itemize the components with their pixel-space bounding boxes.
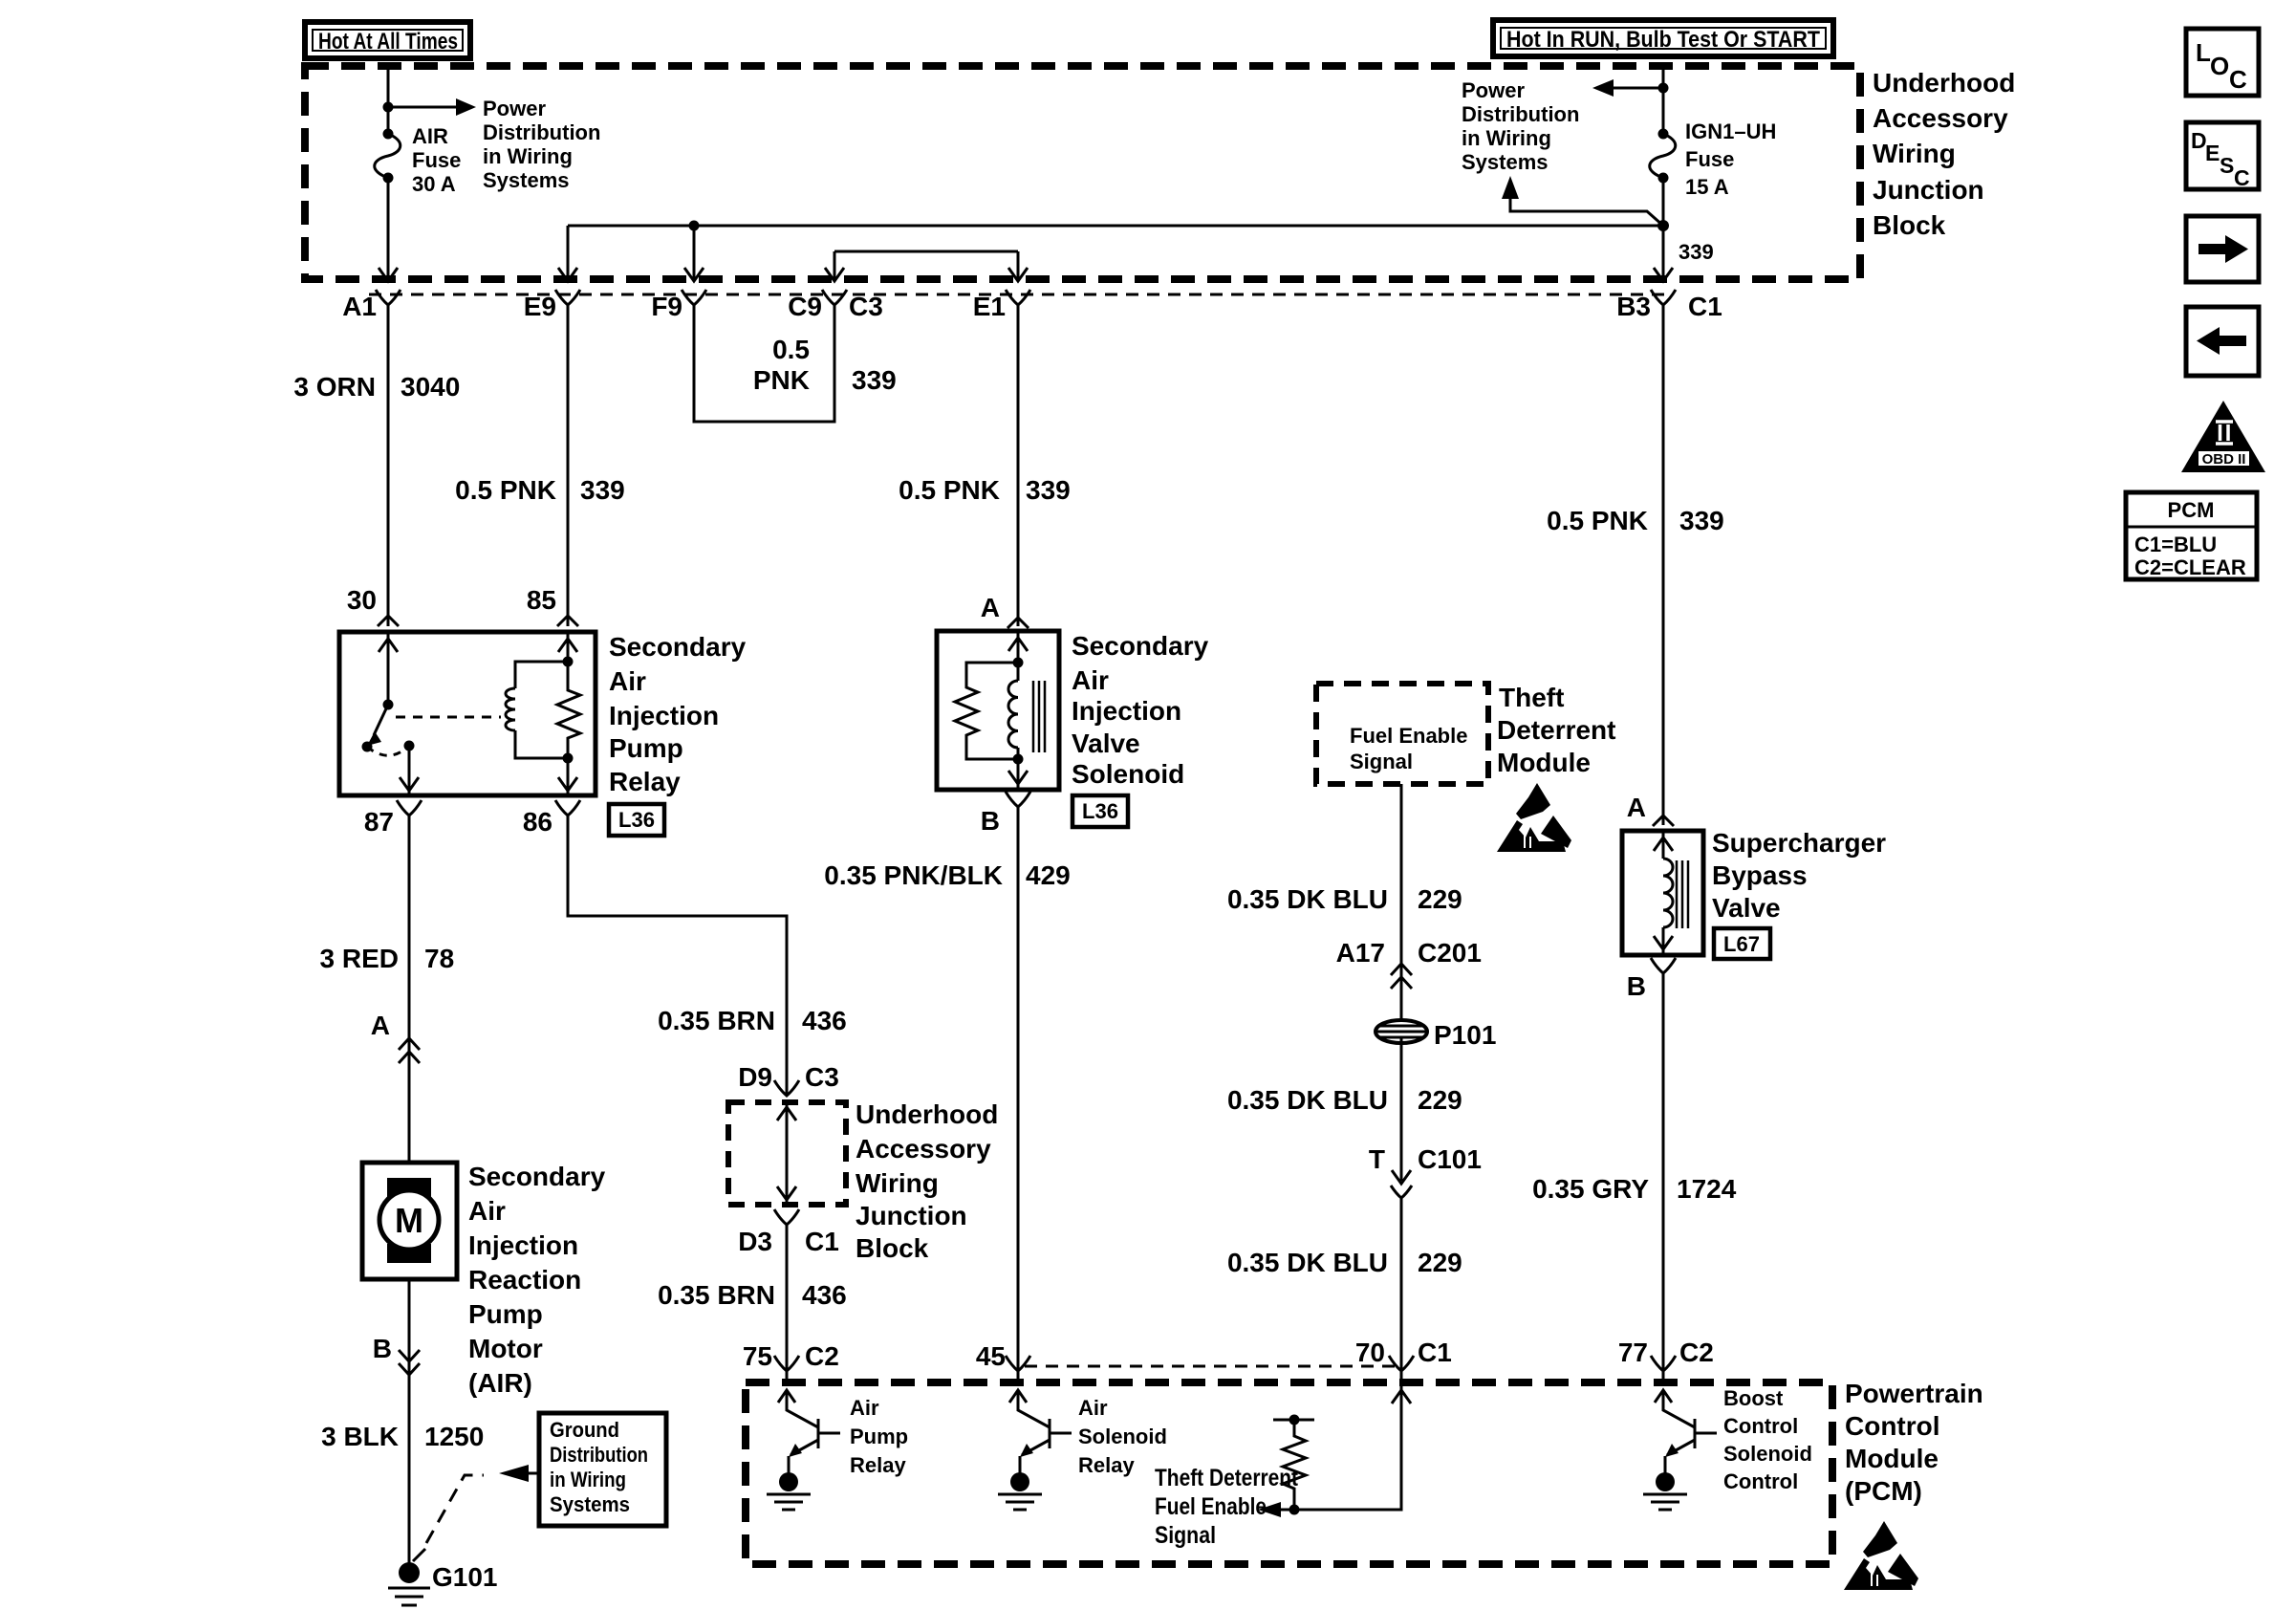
svg-text:Secondary: Secondary bbox=[468, 1162, 606, 1191]
svg-text:G101: G101 bbox=[432, 1562, 498, 1592]
svg-text:Module: Module bbox=[1497, 748, 1591, 777]
svg-text:436: 436 bbox=[802, 1006, 847, 1035]
transistor: air solenoid relay driver bbox=[998, 1390, 1072, 1510]
svg-text:L67: L67 bbox=[1723, 932, 1760, 956]
svg-text:Distribution: Distribution bbox=[550, 1443, 648, 1467]
svg-text:C3: C3 bbox=[805, 1062, 839, 1092]
svg-text:PCM: PCM bbox=[2168, 498, 2215, 522]
svg-text:Solenoid: Solenoid bbox=[1072, 759, 1184, 789]
wire: solenoid A internal with up arrow bbox=[1008, 631, 1028, 663]
wire: through small junction block with arrows bbox=[777, 1105, 796, 1202]
small junction block pass-through (dashed box) bbox=[728, 1102, 846, 1205]
svg-text:Air: Air bbox=[1078, 1396, 1108, 1420]
svg-text:Hot At All Times: Hot At All Times bbox=[318, 29, 458, 54]
wire: relay 85 internal with up arrow bbox=[558, 632, 577, 662]
label: Air Solenoid Relay bbox=[1078, 1396, 1167, 1477]
svg-text:in Wiring: in Wiring bbox=[483, 144, 573, 168]
internal signal arrow (fuel enable) bbox=[1258, 1502, 1294, 1517]
svg-text:A17: A17 bbox=[1336, 938, 1385, 968]
svg-text:Pump: Pump bbox=[850, 1425, 908, 1448]
wire: relay 30 internal with up arrow bbox=[379, 632, 398, 705]
svg-text:Deterrent: Deterrent bbox=[1497, 715, 1615, 745]
relay resistor (parallel) bbox=[557, 657, 580, 764]
svg-text:70: 70 bbox=[1355, 1338, 1385, 1367]
supercharger valve core bars bbox=[1677, 860, 1688, 928]
sidebar icon: arrow right box bbox=[2186, 216, 2259, 282]
svg-text:C9: C9 bbox=[788, 292, 822, 321]
svg-text:Relay: Relay bbox=[850, 1453, 906, 1477]
pin 77 / C2 bbox=[1618, 1338, 1714, 1371]
svg-text:Junction: Junction bbox=[856, 1201, 967, 1230]
transistor: air pump relay driver bbox=[767, 1390, 840, 1510]
wire: F9 drop to border with arrow bbox=[684, 226, 704, 281]
solenoid resistor (left branch) bbox=[955, 658, 1024, 765]
svg-text:Fuel Enable: Fuel Enable bbox=[1350, 724, 1467, 748]
connector A (in-line, double chevron) bbox=[371, 1011, 420, 1063]
svg-text:0.35 GRY: 0.35 GRY bbox=[1532, 1174, 1649, 1204]
svg-text:F9: F9 bbox=[651, 292, 682, 321]
wire: E1 drop to border with arrow bbox=[1008, 251, 1028, 281]
svg-text:C: C bbox=[2234, 165, 2250, 190]
svg-text:C101: C101 bbox=[1418, 1144, 1482, 1174]
pin 87 bbox=[364, 800, 422, 837]
svg-text:229: 229 bbox=[1418, 1248, 1462, 1277]
svg-text:(AIR): (AIR) bbox=[468, 1368, 532, 1398]
label: Supercharger Bypass Valve bbox=[1712, 828, 1886, 923]
svg-text:Theft Deterrent: Theft Deterrent bbox=[1155, 1465, 1299, 1491]
label: Air Pump Relay bbox=[850, 1396, 908, 1477]
sidebar icon: LOC box bbox=[2186, 29, 2259, 96]
connector A1 bbox=[342, 290, 401, 321]
label: 0.5 PNK 339 (E1 drop) bbox=[899, 475, 1071, 505]
wire: IGN1 feed down from Hot In RUN bbox=[1662, 66, 1665, 134]
svg-text:86: 86 bbox=[523, 807, 552, 837]
svg-text:T: T bbox=[1369, 1144, 1385, 1174]
svg-text:L: L bbox=[2196, 38, 2211, 67]
svg-text:Fuse: Fuse bbox=[1685, 147, 1734, 171]
svg-text:Hot In RUN, Bulb Test Or START: Hot In RUN, Bulb Test Or START bbox=[1506, 27, 1820, 53]
wire: theft deterrent input into PCM bbox=[1294, 1371, 1411, 1510]
svg-text:Fuel Enable: Fuel Enable bbox=[1155, 1493, 1267, 1520]
svg-text:3040: 3040 bbox=[401, 372, 460, 402]
svg-text:Solenoid: Solenoid bbox=[1723, 1442, 1812, 1466]
svg-text:E9: E9 bbox=[524, 292, 556, 321]
svg-text:D9: D9 bbox=[738, 1062, 772, 1092]
svg-text:E1: E1 bbox=[973, 292, 1006, 321]
svg-text:B: B bbox=[373, 1334, 392, 1363]
pin B (supercharger valve) bbox=[1627, 958, 1676, 1001]
wire: B3/C1 down to supercharger A (0.5 PNK 339) bbox=[1653, 305, 1674, 826]
svg-text:A1: A1 bbox=[342, 292, 377, 321]
label: Secondary Air Injection Valve Solenoid bbox=[1072, 631, 1209, 789]
sidebar icon: arrow left box bbox=[2186, 307, 2259, 376]
svg-text:PNK: PNK bbox=[753, 365, 810, 395]
svg-text:Relay: Relay bbox=[1078, 1453, 1135, 1477]
powertrain control module PCM (dashed box) bbox=[746, 1382, 1832, 1564]
ESD symbol (PCM) bbox=[1844, 1521, 1918, 1590]
svg-text:Power: Power bbox=[483, 97, 546, 120]
svg-text:0.35 BRN: 0.35 BRN bbox=[658, 1006, 775, 1035]
svg-text:0.5 PNK: 0.5 PNK bbox=[899, 475, 1000, 505]
svg-text:339: 339 bbox=[1026, 475, 1071, 505]
label: Underhood Accessory Wiring Junction Block (small) bbox=[856, 1099, 998, 1263]
pin 70 / C1 bbox=[1355, 1338, 1452, 1371]
svg-text:D3: D3 bbox=[738, 1227, 772, 1256]
node: net 339 junction dot bbox=[1657, 220, 1669, 231]
wire: jumper F9 to C9 (0.5 PNK 339) bbox=[694, 305, 834, 422]
svg-text:Wiring: Wiring bbox=[1873, 139, 1956, 168]
svg-text:Distribution: Distribution bbox=[1462, 102, 1579, 126]
pin 75 / C2 bbox=[743, 1341, 839, 1371]
wire: valve B down to PCM 77 (0.35 GRY 1724) bbox=[1662, 973, 1665, 1382]
label: 3 ORN 3040 bbox=[293, 372, 460, 402]
svg-text:S: S bbox=[2220, 153, 2234, 178]
label: Power Distribution in Wiring Systems (left) bbox=[483, 97, 600, 192]
svg-text:Control: Control bbox=[1723, 1414, 1798, 1438]
svg-text:Accessory: Accessory bbox=[1873, 103, 2008, 133]
svg-text:C2: C2 bbox=[805, 1341, 839, 1371]
wire: E9 to relay 85 (0.5 PNK 339) bbox=[557, 305, 578, 626]
svg-text:in Wiring: in Wiring bbox=[1462, 126, 1551, 150]
label: 0.35 BRN 436 (upper) bbox=[658, 1006, 847, 1035]
svg-text:0.5: 0.5 bbox=[772, 335, 810, 364]
tag L36 (solenoid) bbox=[1072, 795, 1128, 827]
label: 0.35 GRY 1724 bbox=[1532, 1174, 1737, 1204]
svg-text:C: C bbox=[2229, 65, 2247, 94]
label: 0.5 PNK 339 on jumper bbox=[753, 335, 897, 395]
svg-text:C201: C201 bbox=[1418, 938, 1482, 968]
connector B (in-line, double chevron) bbox=[373, 1334, 420, 1375]
label box: Hot In RUN, Bulb Test Or START bbox=[1493, 20, 1833, 56]
svg-text:Wiring: Wiring bbox=[856, 1168, 939, 1198]
node: junction dot on IGN1 feed bbox=[1658, 83, 1669, 94]
wire: valve A internal with up arrow bbox=[1654, 831, 1673, 859]
svg-text:in Wiring: in Wiring bbox=[550, 1468, 626, 1491]
ESD symbol (theft deterrent) bbox=[1497, 783, 1571, 852]
svg-text:339: 339 bbox=[580, 475, 625, 505]
supercharger valve coil bbox=[1663, 859, 1673, 927]
svg-text:Injection: Injection bbox=[468, 1230, 578, 1260]
pin 86 bbox=[523, 800, 580, 837]
svg-text:Air: Air bbox=[609, 666, 646, 696]
svg-text:E: E bbox=[2205, 141, 2220, 165]
svg-text:0.35 DK BLU: 0.35 DK BLU bbox=[1227, 884, 1388, 914]
svg-text:B: B bbox=[981, 806, 1000, 836]
svg-text:229: 229 bbox=[1418, 1085, 1462, 1115]
svg-text:C1: C1 bbox=[805, 1227, 839, 1256]
svg-text:0.35 PNK/BLK: 0.35 PNK/BLK bbox=[824, 860, 1003, 890]
pin 45 bbox=[976, 1341, 1030, 1371]
svg-text:Systems: Systems bbox=[1462, 150, 1549, 174]
svg-text:(PCM): (PCM) bbox=[1845, 1476, 1922, 1506]
svg-text:Secondary: Secondary bbox=[1072, 631, 1209, 661]
wire: relay coil to 86 with down arrow bbox=[558, 758, 577, 795]
dashed reference arrow to ground distribution bbox=[426, 1465, 538, 1543]
svg-text:0.5 PNK: 0.5 PNK bbox=[455, 475, 556, 505]
wire: P101 down to C101 bbox=[1400, 1037, 1403, 1181]
label: 0.5 PNK 339 (E9 drop) bbox=[455, 475, 625, 505]
wire: reference arrow up toward Power Distribution text bbox=[1502, 176, 1663, 226]
tag L36 (relay) bbox=[609, 804, 664, 836]
svg-text:45: 45 bbox=[976, 1341, 1006, 1371]
wire: D3 down to PCM 75 (0.35 BRN 436) bbox=[786, 1225, 789, 1382]
wire: battery feed down from Hot At All Times bbox=[387, 66, 390, 134]
label: Underhood Accessory Wiring Junction Block bbox=[1873, 68, 2015, 240]
connector A17/C201 (double chevron) bbox=[1336, 938, 1482, 989]
svg-text:1250: 1250 bbox=[424, 1422, 484, 1451]
connector E1 bbox=[973, 290, 1030, 321]
relay: secondary air injection pump relay box bbox=[339, 632, 596, 795]
svg-text:3 ORN: 3 ORN bbox=[293, 372, 376, 402]
wire: fuse output down to A1 crossing, arrow at border bbox=[379, 178, 398, 281]
ground G101 bbox=[388, 1549, 498, 1605]
svg-text:Control: Control bbox=[1845, 1411, 1940, 1441]
relay switch blade and contacts bbox=[362, 700, 415, 756]
svg-text:A: A bbox=[1627, 793, 1646, 822]
label: Power Distribution in Wiring Systems (right) bbox=[1462, 78, 1579, 174]
svg-text:Ground: Ground bbox=[550, 1418, 619, 1442]
svg-text:Signal: Signal bbox=[1155, 1522, 1216, 1549]
wire: A1 to relay 30 (3 ORN 3040) bbox=[378, 305, 399, 626]
svg-text:77: 77 bbox=[1618, 1338, 1648, 1367]
svg-text:Bypass: Bypass bbox=[1712, 860, 1808, 890]
svg-text:30: 30 bbox=[347, 585, 377, 615]
wire: E1 to solenoid A (0.5 PNK 339) bbox=[1007, 305, 1029, 628]
svg-text:C3: C3 bbox=[849, 292, 883, 321]
wire: E9 drop to border with arrow bbox=[558, 226, 577, 281]
svg-text:Valve: Valve bbox=[1712, 893, 1781, 923]
svg-text:Systems: Systems bbox=[483, 168, 570, 192]
svg-text:Secondary: Secondary bbox=[609, 632, 747, 662]
node: F9 tap junction dot bbox=[689, 221, 700, 231]
PCM connector line (fine dotted) bbox=[1025, 1365, 1401, 1368]
solenoid coil bbox=[1008, 663, 1018, 759]
label: 3 RED 78 bbox=[320, 944, 455, 973]
svg-text:Accessory: Accessory bbox=[856, 1134, 991, 1164]
connector line (fine dotted) below junction block bbox=[369, 294, 1671, 296]
svg-text:339: 339 bbox=[852, 365, 897, 395]
svg-text:Pump: Pump bbox=[609, 733, 683, 763]
svg-text:Air: Air bbox=[1072, 665, 1109, 695]
svg-text:Control: Control bbox=[1723, 1469, 1798, 1493]
svg-text:0.35 BRN: 0.35 BRN bbox=[658, 1280, 775, 1310]
svg-text:429: 429 bbox=[1026, 860, 1071, 890]
connector E9 bbox=[524, 290, 580, 321]
wire: relay common to 87 with down arrow bbox=[400, 746, 419, 795]
tag L67 bbox=[1714, 928, 1770, 959]
svg-text:M: M bbox=[395, 1201, 423, 1240]
wire: solenoid to B with down arrow bbox=[1008, 759, 1028, 790]
svg-text:Solenoid: Solenoid bbox=[1078, 1425, 1167, 1448]
fuse IGN1-UH 15A bbox=[1650, 129, 1676, 184]
resistor: theft deterrent pull-up bbox=[1273, 1415, 1314, 1515]
label: 0.5 PNK 339 (B3 drop) bbox=[1547, 506, 1724, 535]
connector C9/C3 bbox=[788, 290, 883, 321]
svg-text:L36: L36 bbox=[1082, 799, 1118, 823]
label: 0.35 DK BLU 229 (middle) bbox=[1227, 1085, 1462, 1115]
connector D9/C3 bbox=[738, 1062, 839, 1096]
svg-text:Power: Power bbox=[1462, 78, 1525, 102]
svg-text:Junction: Junction bbox=[1873, 175, 1984, 205]
transistor: boost control solenoid driver bbox=[1643, 1390, 1717, 1510]
svg-text:0.35 DK BLU: 0.35 DK BLU bbox=[1227, 1085, 1388, 1115]
label: Fuel Enable Signal bbox=[1350, 724, 1467, 773]
label: Theft Deterrent Fuel Enable Signal bbox=[1155, 1465, 1299, 1549]
svg-text:L36: L36 bbox=[618, 808, 655, 832]
solenoid: secondary air injection valve solenoid box bbox=[937, 631, 1059, 790]
label: Secondary Air Injection Reaction Pump Motor (AIR) bbox=[468, 1162, 606, 1398]
wire: C101 down to PCM 70 (0.35 DK BLU 229) bbox=[1400, 1197, 1403, 1382]
pin B (solenoid) bbox=[981, 792, 1030, 836]
label box: Hot At All Times bbox=[305, 22, 470, 58]
solenoid valve core bars bbox=[1033, 681, 1045, 752]
label: Secondary Air Injection Pump Relay bbox=[609, 632, 747, 796]
svg-text:O: O bbox=[2210, 52, 2229, 80]
relay coil (left branch) bbox=[506, 662, 568, 758]
svg-text:B: B bbox=[1627, 971, 1646, 1001]
underhood accessory wiring junction block (dashed box) bbox=[305, 66, 1860, 279]
svg-text:78: 78 bbox=[424, 944, 454, 973]
svg-text:Air: Air bbox=[850, 1396, 879, 1420]
wire: solenoid B down to PCM 45 (0.35 PNK/BLK 429) bbox=[1017, 807, 1020, 1382]
wire: tap to Power Distribution (right), filled left arrow bbox=[1592, 79, 1663, 97]
svg-text:C2=CLEAR: C2=CLEAR bbox=[2134, 555, 2246, 579]
label: Powertrain Control Module (PCM) bbox=[1845, 1379, 1983, 1506]
svg-text:A: A bbox=[981, 593, 1000, 622]
svg-text:Supercharger: Supercharger bbox=[1712, 828, 1886, 858]
svg-text:3 BLK: 3 BLK bbox=[321, 1422, 399, 1451]
svg-text:0.35 DK BLU: 0.35 DK BLU bbox=[1227, 1248, 1388, 1277]
svg-text:Theft: Theft bbox=[1499, 683, 1564, 712]
wire: 87 down to motor A (3 RED 78) bbox=[408, 816, 411, 1163]
svg-text:A: A bbox=[371, 1011, 390, 1040]
label: 0.35 DK BLU 229 (lower) bbox=[1227, 1248, 1462, 1277]
svg-text:IGN1–UH: IGN1–UH bbox=[1685, 120, 1776, 143]
svg-text:Reaction: Reaction bbox=[468, 1265, 581, 1295]
label: Theft Deterrent Module bbox=[1497, 683, 1615, 777]
svg-text:AIR: AIR bbox=[412, 124, 448, 148]
svg-text:Boost: Boost bbox=[1723, 1386, 1784, 1410]
svg-text:C1=BLU: C1=BLU bbox=[2134, 533, 2217, 556]
svg-text:85: 85 bbox=[527, 585, 556, 615]
label: IGN1-UH Fuse 15 A bbox=[1685, 120, 1776, 199]
svg-text:339: 339 bbox=[1679, 506, 1724, 535]
svg-text:Block: Block bbox=[1873, 210, 1946, 240]
label: AIR Fuse 30 A bbox=[412, 124, 461, 196]
svg-text:P101: P101 bbox=[1434, 1020, 1496, 1050]
svg-text:Systems: Systems bbox=[550, 1492, 630, 1516]
svg-text:B3: B3 bbox=[1616, 292, 1651, 321]
svg-text:Underhood: Underhood bbox=[856, 1099, 998, 1129]
fuse AIR 30A bbox=[375, 129, 401, 184]
svg-text:Distribution: Distribution bbox=[483, 120, 600, 144]
wire: IGN1 fuse output down to 339 junction bbox=[1662, 178, 1665, 226]
svg-text:30 A: 30 A bbox=[412, 172, 456, 196]
wire: C3 riser through border with arrow bbox=[825, 251, 844, 281]
svg-text:Injection: Injection bbox=[1072, 696, 1181, 726]
sidebar icon: DESC box bbox=[2186, 122, 2259, 190]
wire: valve to B with down arrow bbox=[1654, 927, 1673, 955]
label: Boost Control Solenoid Control bbox=[1723, 1386, 1812, 1493]
svg-text:0.5 PNK: 0.5 PNK bbox=[1547, 506, 1648, 535]
svg-text:Motor: Motor bbox=[468, 1334, 543, 1363]
svg-text:Fuse: Fuse bbox=[412, 148, 461, 172]
svg-text:229: 229 bbox=[1418, 884, 1462, 914]
svg-text:C1: C1 bbox=[1418, 1338, 1452, 1367]
wire: 339 drop below fuse to B3 crossing, label 339 bbox=[1654, 226, 1714, 281]
svg-text:Pump: Pump bbox=[468, 1299, 543, 1329]
svg-text:87: 87 bbox=[364, 807, 394, 837]
sidebar icon: OBD II triangle bbox=[2181, 401, 2265, 472]
wire: fuel enable signal down to C201 (0.35 DK BLU 229) bbox=[1400, 784, 1403, 1026]
svg-text:Module: Module bbox=[1845, 1444, 1939, 1473]
svg-text:339: 339 bbox=[1679, 240, 1714, 264]
svg-text:C2: C2 bbox=[1679, 1338, 1714, 1367]
svg-text:15 A: 15 A bbox=[1685, 175, 1729, 199]
motor: secondary air injection reaction pump motor box bbox=[362, 1163, 457, 1279]
svg-text:Valve: Valve bbox=[1072, 729, 1140, 758]
svg-text:3 RED: 3 RED bbox=[320, 944, 399, 973]
label: 0.35 PNK/BLK 429 bbox=[824, 860, 1070, 890]
svg-text:75: 75 bbox=[743, 1341, 772, 1371]
wire: motor B down to G101 (3 BLK 1250) bbox=[408, 1279, 411, 1573]
label: 3 BLK 1250 bbox=[321, 1422, 484, 1451]
wire: relay 86 jog to junction block D9 (0.35 BRN 436) bbox=[568, 816, 787, 1096]
svg-text:Signal: Signal bbox=[1350, 750, 1413, 773]
wire: net 339 horizontal rail E9-F9-339 junction bbox=[568, 225, 1663, 228]
label box: Ground Distribution in Wiring Systems bbox=[539, 1413, 666, 1526]
svg-text:Injection: Injection bbox=[609, 701, 719, 730]
splice P101 bbox=[1375, 1020, 1496, 1050]
label: 0.35 DK BLU 229 (upper) bbox=[1227, 884, 1462, 914]
supercharger bypass valve box bbox=[1622, 831, 1703, 955]
wire: tap to Power Distribution (left), filled right arrow bbox=[388, 98, 476, 116]
svg-text:Underhood: Underhood bbox=[1873, 68, 2015, 98]
theft deterrent module (dashed box) bbox=[1316, 684, 1488, 784]
relay actuating dashed link bbox=[396, 716, 501, 719]
connector F9 bbox=[651, 290, 706, 321]
svg-text:C1: C1 bbox=[1688, 292, 1722, 321]
connector B3/C1 bbox=[1616, 290, 1722, 321]
svg-text:Powertrain: Powertrain bbox=[1845, 1379, 1983, 1408]
wire: net 339 inner rail from C3 to E1 bbox=[834, 250, 1018, 253]
connector D3/C1 bbox=[738, 1209, 839, 1256]
svg-text:Block: Block bbox=[856, 1233, 929, 1263]
svg-text:OBD II: OBD II bbox=[2202, 451, 2246, 468]
svg-text:Relay: Relay bbox=[609, 767, 681, 796]
node: junction dot on battery feed bbox=[383, 102, 394, 113]
svg-text:436: 436 bbox=[802, 1280, 847, 1310]
label: 0.35 BRN 436 (lower) bbox=[658, 1280, 847, 1310]
svg-text:1724: 1724 bbox=[1677, 1174, 1737, 1204]
svg-text:Air: Air bbox=[468, 1196, 506, 1226]
connector T/C101 bbox=[1369, 1144, 1482, 1198]
sidebar legend: PCM connectors bbox=[2126, 492, 2257, 579]
